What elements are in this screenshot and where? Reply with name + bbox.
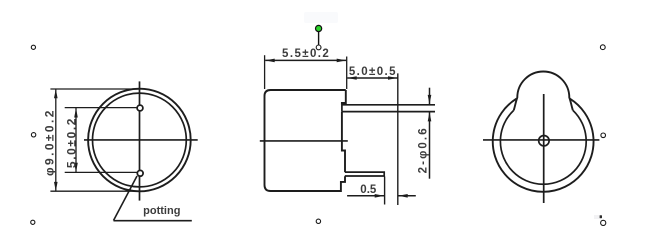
cursor mark: [600, 215, 602, 218]
selection handle mid-right: [601, 133, 606, 138]
dimension 0.5 right arrow pointing right: [375, 194, 385, 198]
selection handle bottom-left: [31, 220, 35, 224]
back view outer circle arc: [493, 99, 594, 192]
svg-text:potting: potting: [143, 205, 180, 217]
dimension 5.0 pin length right arrow: [388, 76, 398, 80]
rotation handle stem: [318, 32, 320, 46]
dimension 5.0 pin length line: [347, 77, 397, 79]
back view vertical centerline: [543, 94, 545, 203]
back view horizontal centerline: [483, 139, 599, 141]
svg-text:φ9.0±0.2: φ9.0±0.2: [43, 108, 57, 176]
selection handle mid-left: [31, 133, 35, 137]
dimension 5.5 line: [265, 59, 346, 61]
dimension 0.5 line left part: [347, 195, 384, 197]
svg-text:5.5±0.2: 5.5±0.2: [282, 48, 330, 60]
dimension 5.0 pin length left arrow: [347, 76, 357, 80]
dimension 5.0 pin pitch extension line bottom: [65, 171, 137, 173]
dimension phi9 extension line bottom: [50, 190, 140, 192]
rotation handle green dot: [316, 25, 322, 31]
selection handle top-center: [316, 45, 321, 50]
front view inner circle: [92, 93, 186, 187]
dimension 5.0 pin pitch extension line top: [65, 107, 137, 109]
svg-text:5.0±0.2: 5.0±0.2: [64, 117, 78, 168]
potting leader line: [114, 176, 138, 221]
side view body centerline: [260, 140, 348, 142]
svg-text:5.0±0.5: 5.0±0.5: [349, 66, 397, 78]
dimension 5.0 pin pitch line: [75, 108, 77, 172]
highlight smudge: [304, 12, 338, 23]
dimension 0.5 left arrow pointing left: [398, 194, 408, 198]
dimension phi9 extension line top: [50, 88, 139, 90]
dimension 0.5 line right part: [398, 195, 416, 197]
back view center hole: [539, 136, 549, 146]
front view vertical centerline: [139, 81, 141, 200]
dimension 5.5 extension line right: [346, 57, 348, 90]
dimension phi9 top arrow: [54, 89, 58, 99]
dimension 5.5 left arrow: [265, 59, 275, 63]
back view inner circle arc: [500, 110, 586, 184]
potting leader underline: [114, 220, 192, 222]
pin end extension line: [397, 73, 399, 205]
dimension phi9 bottom arrow: [54, 182, 58, 192]
dimension 2-phi0.6 line lower segment: [429, 112, 431, 179]
selection handle top-right: [600, 45, 605, 50]
selection handle bottom-right: [601, 220, 606, 225]
dimension 2-phi0.6 upper arrow: [428, 95, 432, 105]
front view bottom pin hole: [137, 170, 143, 176]
dimension 5.0 pin pitch bottom arrow: [74, 163, 78, 173]
selection handle bottom-center: [316, 219, 320, 223]
front view top pin hole: [137, 105, 143, 111]
side view body outline: [265, 90, 346, 191]
dimension 2-phi0.6 line upper segment: [429, 88, 431, 104]
selection handle top-left: [31, 45, 35, 49]
dimension 2-phi0.6 lower arrow: [428, 112, 432, 122]
dimension 5.5 right arrow: [337, 59, 347, 63]
front view horizontal centerline: [84, 139, 198, 141]
dimension 5.0 pin pitch top arrow: [74, 108, 78, 118]
front view outer circle: [88, 89, 191, 192]
side view top pin: [342, 105, 435, 112]
svg-text:0.5: 0.5: [360, 184, 377, 196]
dimension phi9 line: [55, 89, 57, 191]
svg-text:2-φ0.6: 2-φ0.6: [418, 126, 430, 173]
cursor smudge: [594, 215, 600, 219]
bottom pin end extension line: [384, 177, 386, 205]
back view bump outline: [514, 72, 573, 111]
side view bottom pin: [345, 172, 384, 176]
dimension 5.5 extension line left: [264, 55, 266, 89]
